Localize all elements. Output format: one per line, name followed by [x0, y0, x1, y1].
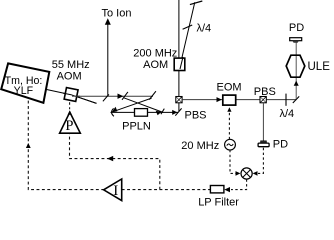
svg-text:PBS: PBS [254, 86, 276, 98]
svg-text:PD: PD [289, 22, 304, 34]
beam: cavity diagonal TL-BR [124, 98, 163, 113]
beam: cavity diagonal TR-BL [111, 98, 151, 112]
ULE cavity (hexagonal spacer) [286, 55, 305, 77]
svg-text:PPLN: PPLN [122, 121, 151, 133]
arrowhead right into mixer [236, 171, 241, 176]
svg-text:20 MHz: 20 MHz [181, 140, 219, 152]
PPLN cavity mirror TL (input coupler) [122, 92, 128, 100]
wire: oscillator to EOM (dashed) [228, 110, 230, 140]
mirror M3 (to ULE) [293, 96, 299, 103]
beam: cavity bottom line through PPLN to mirror [111, 111, 179, 113]
wire: LP output to I-amp input (dashed) [122, 189, 211, 191]
PPLN cavity mirror BR [161, 109, 164, 115]
arrowhead cavity output [172, 110, 177, 115]
svg-text:AOM: AOM [143, 59, 168, 71]
arrowhead left into LP filter [224, 187, 230, 192]
svg-text:LP Filter: LP Filter [198, 196, 239, 208]
photodiode PD1 (above ULE) [290, 38, 302, 43]
arrowhead on main beam [118, 94, 124, 99]
amplifier I (triangle) [104, 179, 122, 201]
svg-text:EOM: EOM [217, 82, 242, 94]
PPLN cavity mirror BL (curved) [112, 108, 114, 116]
PBS2 cube [260, 97, 266, 103]
arrowhead up into AOM1 [68, 110, 72, 114]
wire: junction up and left to P-amp (dashed) [70, 133, 160, 189]
laser Tm,Ho:YLF box [1, 63, 49, 102]
LP filter box [210, 186, 224, 193]
arrowhead up into laser [26, 143, 31, 148]
beam through AOM1 redrawn [63, 93, 97, 103]
waveplate lambda/4 tick on diagonal [183, 25, 193, 29]
svg-text:P: P [65, 118, 73, 134]
svg-text:55 MHz: 55 MHz [52, 59, 90, 71]
svg-text:λ/4: λ/4 [280, 108, 295, 120]
arrowhead left into mixer [253, 171, 258, 176]
wire: mixer to LP filter (dashed) [231, 179, 247, 189]
svg-text:PBS: PBS [185, 110, 207, 122]
svg-text:PD: PD [273, 139, 288, 151]
EOM box [223, 95, 236, 105]
PPLN crystal box [135, 109, 148, 117]
oscillator 20 MHz [225, 139, 236, 150]
arrowhead To Ion [105, 18, 111, 25]
mirror: pick-off slash at To Ion junction [103, 94, 109, 101]
svg-text:I: I [113, 183, 118, 199]
PPLN cavity mirror TR [149, 91, 156, 99]
svg-text:To Ion: To Ion [102, 7, 132, 19]
beam: To Ion vertical [107, 21, 109, 97]
beam: AOM2 double-pass diagonal to top mirror [180, 2, 195, 66]
svg-text:200 MHz: 200 MHz [133, 48, 177, 60]
svg-text:YLF: YLF [14, 85, 34, 97]
beam: main horizontal line AOM1 to doubling cavity [72, 95, 153, 97]
beam: up to ULE and PD1 [295, 42, 297, 99]
mirror M1 (cavity output up) [175, 108, 181, 115]
mixer [241, 168, 252, 179]
arrowhead left on P-branch [107, 156, 113, 161]
arrowhead up into ULE [294, 81, 299, 86]
arrowhead up into EOM [227, 107, 231, 112]
PBS1 cube [176, 97, 182, 103]
beam: PBS2 down to PD2 [262, 103, 264, 141]
AOM2 200MHz box [174, 58, 185, 70]
beam: laser to AOM1 (diagonal) [47, 90, 97, 104]
waveplate lambda/4 tick vertical [285, 94, 287, 106]
arrowhead toward BR [156, 111, 162, 116]
wire: PD2 to mixer (dashed) [258, 148, 263, 174]
beam: up from M1 through PBS1 to AOM2 [178, 0, 180, 111]
amplifier P (triangle) [60, 112, 81, 133]
AOM1 55MHz box (rotated square) [64, 88, 78, 102]
svg-text:λ/4: λ/4 [197, 23, 212, 35]
mirror M2 (top retro mirror) [190, 1, 202, 5]
svg-text:AOM: AOM [57, 70, 82, 82]
photodiode PD2 [258, 141, 269, 147]
wire: I-amp output to laser (dashed feedback) [28, 100, 104, 190]
arrowhead toward BL [112, 107, 118, 113]
wire: oscillator to mixer (dashed) [230, 150, 239, 174]
svg-text:ULE: ULE [308, 61, 331, 73]
arrowhead into EOM [217, 97, 222, 102]
wire: P-amp apex to AOM1 (dashed) [69, 102, 71, 109]
beam: PBS1 to EOM to PBS2 to mirror M3 [182, 99, 296, 101]
